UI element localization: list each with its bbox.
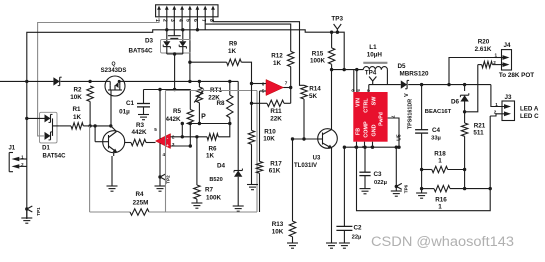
node U3 base a: [291, 137, 294, 140]
wire FB loop: [357, 116, 491, 211]
wire U3 collector: [331, 70, 333, 130]
svg-text:22µ: 22µ: [352, 235, 362, 241]
thermistor RT1: [196, 87, 202, 103]
svg-text:01µ: 01µ: [119, 109, 130, 116]
node pin2/D3 anode: [165, 28, 168, 31]
resistor R12: [288, 51, 294, 66]
connector J3: [502, 101, 515, 121]
node pin7 join: [397, 146, 400, 149]
connector J2 (8-pin header, arrows up): [156, 5, 218, 17]
node R5 bottom: [189, 122, 192, 125]
ground R13: [287, 242, 298, 244]
node TP6: [395, 185, 398, 188]
wire D4 column: [237, 81, 239, 170]
wire Q2 emitter down: [113, 153, 115, 156]
svg-text:D1: D1: [42, 146, 50, 152]
test point TP4: [369, 77, 373, 82]
node pin6: [196, 28, 199, 31]
svg-text:6: 6: [262, 82, 265, 87]
node R8 top: [228, 80, 231, 83]
svg-text:TPS6161DR: TPS6161DR: [408, 99, 414, 129]
node GND: [371, 146, 374, 149]
svg-text:J3: J3: [504, 94, 512, 101]
ground C4 col: [416, 192, 427, 194]
svg-text:R13: R13: [272, 221, 284, 228]
op-amp U1B (red): [266, 80, 284, 96]
wire main rail right: [125, 80, 238, 82]
svg-text:225M: 225M: [133, 200, 149, 207]
svg-text:1: 1: [438, 204, 442, 211]
resistor R9: [190, 61, 227, 63]
wire pin1 guard (gray): [38, 17, 159, 136]
svg-text:D6: D6: [451, 99, 460, 106]
wire D4 to ground: [237, 177, 239, 206]
node loop: [355, 146, 358, 149]
node R16 right: [489, 187, 492, 190]
svg-text:R4: R4: [135, 191, 144, 198]
ground U3 emitter: [326, 242, 337, 244]
node RT1 bottom: [198, 122, 201, 125]
inductor L1: [363, 62, 387, 64]
wire R20 to D6 node: [466, 65, 478, 112]
node pin4: [181, 28, 184, 31]
package outline D1: [40, 112, 58, 143]
connector J4: [502, 50, 512, 70]
wire D3 bus: [167, 29, 198, 31]
node TP6 col: [395, 146, 398, 149]
transistor Q1 (P-MOSFET Si2343DS): [105, 76, 125, 96]
svg-text:R1: R1: [72, 106, 81, 113]
diode D1a: [45, 114, 51, 122]
svg-text:R20: R20: [478, 39, 490, 46]
node D3 cathode: [173, 52, 176, 55]
svg-text:C4: C4: [432, 127, 441, 134]
svg-text:TP3: TP3: [331, 16, 343, 23]
svg-text:1: 1: [495, 102, 498, 107]
svg-text:511: 511: [473, 130, 484, 137]
svg-text:100K: 100K: [206, 195, 222, 202]
svg-text:R17: R17: [270, 161, 282, 168]
node U1B output: [289, 86, 292, 89]
svg-text:BEAC16T: BEAC16T: [425, 109, 452, 115]
svg-text:PwPd: PwPd: [379, 112, 385, 126]
wire D1 cathode join: [52, 118, 54, 135]
test point TP3: [334, 24, 338, 29]
node R1/R2: [88, 124, 91, 127]
wire R11 feedback: [290, 88, 292, 104]
svg-text:LED A: LED A: [520, 105, 539, 112]
IC U5 TPS6161DR: [353, 92, 387, 142]
test point TP2: [160, 174, 166, 177]
ground C2: [339, 242, 350, 244]
svg-text:442K: 442K: [165, 116, 181, 123]
wire Q2 base column: [94, 126, 96, 142]
wire R17 link: [259, 91, 261, 161]
ground pin3 (D3 center): [173, 17, 175, 36]
resistor R14: [301, 85, 307, 99]
wire D3 cathodes join: [166, 47, 168, 54]
node Q2 base tap: [93, 124, 96, 127]
svg-text:BAT54C: BAT54C: [128, 48, 152, 55]
svg-text:R18: R18: [434, 151, 446, 158]
svg-text:R10: R10: [264, 129, 276, 136]
node R11 left: [250, 102, 253, 105]
transistor Q2: [103, 131, 125, 153]
svg-text:10K: 10K: [263, 136, 275, 143]
node COMP: [363, 146, 366, 149]
op-amp U1A (red, output left): [156, 134, 171, 149]
wire VIN stubs: [353, 70, 355, 92]
resistor R8: [229, 81, 231, 95]
svg-text:R11: R11: [270, 108, 282, 115]
svg-text:10µH: 10µH: [367, 52, 383, 59]
svg-text:R3: R3: [136, 122, 145, 129]
diode D4: [234, 171, 242, 177]
wire U3 emitter: [331, 148, 333, 243]
wire VIN row: [332, 69, 364, 71]
resistor R2: [87, 86, 93, 102]
svg-text:R7: R7: [205, 187, 214, 194]
resistor R13: [289, 221, 295, 237]
wire U1A -input row: [171, 136, 208, 138]
wire L1 right: [386, 70, 388, 85]
node J4 drop: [447, 83, 450, 86]
svg-text:D4: D4: [217, 162, 226, 169]
resistor R1: [59, 125, 71, 127]
guard wire left: [89, 126, 91, 212]
diode D3a: [163, 41, 170, 46]
wire R13 column: [292, 139, 294, 221]
diode D6: [464, 85, 466, 91]
node RT1 top: [198, 80, 201, 83]
wire COMP stub: [364, 142, 366, 148]
svg-text:1K: 1K: [273, 60, 282, 67]
svg-text:BAT54C: BAT54C: [43, 154, 67, 160]
wire pin4/D3 right anode: [181, 17, 183, 30]
node pin5 rail: [188, 80, 191, 83]
svg-text:+: +: [166, 143, 169, 148]
node D3 guard row: [173, 88, 176, 91]
wire RT1 col: [198, 81, 200, 87]
node R21/R18: [463, 168, 466, 171]
svg-text:L1: L1: [369, 44, 377, 51]
wire SW pin stub: [368, 85, 370, 92]
resistor R20: [478, 64, 482, 66]
svg-text:C2: C2: [353, 225, 362, 232]
capacitor C2: [336, 225, 352, 227]
test point TP1: [27, 206, 33, 209]
capacitor C4: [421, 85, 423, 130]
test point TP6: [396, 183, 402, 186]
svg-text:R8: R8: [216, 100, 225, 107]
wire Q2 upper to gate row: [111, 126, 117, 132]
diode D3b: [179, 41, 186, 46]
node D6 anode: [463, 110, 466, 113]
ground C1: [138, 114, 149, 116]
svg-text:100K: 100K: [310, 58, 326, 65]
wire Q2 to R3: [125, 142, 132, 144]
capacitor C1: [143, 90, 145, 104]
resistor R4: [130, 209, 149, 215]
guard wire right: [149, 211, 257, 213]
wire pin2 left bus: [166, 17, 168, 30]
node R8 bottom: [228, 122, 231, 125]
node R7 top: [195, 135, 198, 138]
wire rail D2-Q1: [60, 80, 105, 82]
svg-text:FB: FB: [355, 128, 361, 135]
node C4/R16: [420, 187, 423, 190]
ground R10: [247, 184, 258, 186]
svg-text:VIN: VIN: [355, 98, 361, 107]
wire TP6 column: [395, 147, 397, 186]
node R21/R16: [463, 187, 466, 190]
wire D1 top anode: [27, 117, 45, 119]
wire Q1 gate: [110, 96, 112, 126]
svg-text:442K: 442K: [131, 129, 147, 136]
ground C3: [360, 188, 371, 190]
transistor U3: [318, 129, 338, 149]
ground TP1: [26, 209, 28, 218]
wire C2 column: [343, 147, 345, 226]
wire GND stub: [372, 142, 374, 148]
resistor R15: [331, 32, 333, 48]
wire J3 pin2: [490, 114, 504, 116]
wire SW row: [369, 84, 401, 86]
svg-text:R15: R15: [312, 51, 324, 58]
node D1 top anode: [25, 117, 28, 120]
svg-text:R14: R14: [309, 86, 321, 93]
wire R12 feed: [205, 24, 291, 51]
svg-text:22K: 22K: [270, 116, 282, 123]
resistor R5: [187, 110, 193, 125]
svg-text:1K: 1K: [228, 48, 237, 55]
wire out to J3 pin1: [491, 85, 504, 107]
svg-text:R9: R9: [229, 41, 238, 48]
wire pin6 stub: [196, 17, 198, 30]
svg-text:1: 1: [438, 158, 442, 165]
svg-text:P: P: [201, 114, 206, 121]
svg-text:TP2: TP2: [166, 175, 171, 184]
svg-text:R16: R16: [435, 197, 447, 204]
svg-text:R12: R12: [271, 53, 283, 60]
node U3 base b: [302, 137, 305, 140]
ground D4: [233, 205, 244, 207]
svg-text:MBRS120: MBRS120: [399, 70, 429, 77]
wire U3 base row: [293, 138, 319, 140]
node R9 left: [188, 61, 191, 64]
node C4/R18: [420, 168, 423, 171]
resistor R3: [131, 139, 146, 145]
wire U1A +input row: [171, 145, 191, 147]
svg-text:SW: SW: [371, 96, 377, 106]
svg-text:U3: U3: [313, 156, 321, 162]
svg-text:1K: 1K: [73, 114, 82, 121]
ground TP2: [159, 177, 161, 186]
capacitor C3: [364, 147, 366, 172]
svg-text:1K: 1K: [206, 153, 215, 160]
U1A pin5 power: [159, 90, 161, 140]
diode D5: [401, 80, 407, 88]
wire pin7 loop: [388, 118, 399, 147]
wire FB row: [344, 146, 399, 148]
wire divider row R5-R8: [190, 123, 230, 125]
node R2 top: [88, 80, 91, 83]
package outline D3: [161, 40, 191, 54]
diode D2: [53, 77, 59, 85]
wire R10 link: [251, 84, 253, 131]
svg-text:R21: R21: [474, 123, 486, 130]
node C2 col: [343, 146, 346, 149]
wire D3 left anode: [166, 30, 168, 41]
svg-text:D5: D5: [397, 63, 406, 70]
node Q1 gate row: [109, 124, 112, 127]
node D6 top: [463, 83, 466, 86]
svg-text:10K: 10K: [70, 94, 82, 101]
svg-text:C1: C1: [126, 100, 135, 107]
ground TP6: [395, 186, 397, 191]
wire R5 col extension: [189, 124, 191, 147]
svg-text:C3: C3: [373, 171, 382, 178]
guard box middle: [165, 91, 167, 213]
ground Q2: [107, 185, 118, 187]
svg-text:LED C: LED C: [520, 113, 539, 120]
wire U1B +input: [260, 90, 267, 92]
svg-text:D3: D3: [145, 38, 154, 45]
node VIN pin: [355, 68, 358, 71]
node divider row: [181, 122, 184, 125]
svg-text:GND: GND: [371, 124, 377, 136]
node TP3 col VIN: [343, 68, 346, 71]
svg-text:R5: R5: [173, 108, 182, 115]
node R15 top: [330, 31, 333, 34]
wire pin8 bus: [213, 17, 304, 86]
wire J4 pin1 link: [449, 58, 496, 85]
node U1A pin5 guard: [158, 88, 161, 91]
svg-text:TP6: TP6: [404, 184, 409, 193]
node R5 col join: [189, 144, 192, 147]
node TP3: [336, 31, 339, 34]
resistor R10: [248, 130, 254, 144]
svg-text:J1: J1: [8, 146, 15, 152]
node left rail: [25, 80, 28, 83]
node divider tap: [181, 135, 184, 138]
svg-text:J4: J4: [503, 42, 511, 49]
wire divider link: [181, 124, 183, 137]
U1A pin4 power: [159, 143, 161, 177]
wire R1 row: [90, 125, 111, 127]
resistor R7: [196, 137, 198, 185]
svg-text:To 28K POT: To 28K POT: [499, 72, 534, 79]
svg-text:TP1: TP1: [36, 207, 41, 216]
svg-text:61K: 61K: [269, 168, 281, 175]
wire U1B -input: [252, 83, 267, 85]
svg-text:R2: R2: [73, 87, 82, 94]
wire main rail left: [0, 80, 53, 82]
svg-text:TP4: TP4: [365, 70, 377, 77]
svg-text:CSDN @whaosoft143: CSDN @whaosoft143: [371, 234, 514, 249]
svg-text:CTRL: CTRL: [363, 98, 369, 113]
svg-text:COMP: COMP: [363, 121, 369, 138]
svg-text:5K: 5K: [309, 93, 318, 100]
wire FB stub: [356, 142, 358, 148]
wire C4 gnd: [421, 170, 423, 194]
svg-text:5: 5: [154, 127, 157, 132]
resistor R17: [256, 161, 262, 173]
node VIN left: [330, 68, 333, 71]
svg-text:10K: 10K: [272, 229, 284, 236]
resistor R16: [422, 188, 434, 190]
ground R7: [191, 202, 202, 204]
svg-text:1: 1: [495, 53, 498, 58]
svg-text:022µ: 022µ: [374, 180, 387, 186]
svg-text:V: V: [404, 93, 410, 97]
node C4 top: [420, 83, 423, 86]
resistor R18: [422, 169, 432, 171]
node -input: [250, 82, 253, 85]
svg-text:B520: B520: [209, 177, 222, 183]
node TP1: [25, 207, 28, 210]
diode D1b: [45, 132, 51, 140]
svg-text:2: 2: [494, 110, 497, 115]
U1B output wire: [284, 87, 291, 89]
wire pin5 column: [189, 17, 191, 82]
wire R5 guard feed: [144, 90, 191, 110]
svg-text:TL031IV: TL031IV: [294, 163, 317, 169]
wire out row: [408, 84, 491, 86]
resistor R6: [207, 134, 218, 140]
resistor R21: [464, 112, 466, 123]
svg-text:33µ: 33µ: [431, 136, 441, 142]
wire pin7 bus: [204, 17, 206, 30]
svg-text:S2343DS: S2343DS: [101, 68, 127, 74]
svg-text:7: 7: [285, 81, 288, 86]
node TP2: [158, 175, 161, 178]
svg-text:2.61K: 2.61K: [475, 46, 492, 53]
svg-text:Q: Q: [111, 62, 115, 68]
svg-text:R6: R6: [208, 146, 217, 153]
connector J1: [8, 153, 10, 172]
